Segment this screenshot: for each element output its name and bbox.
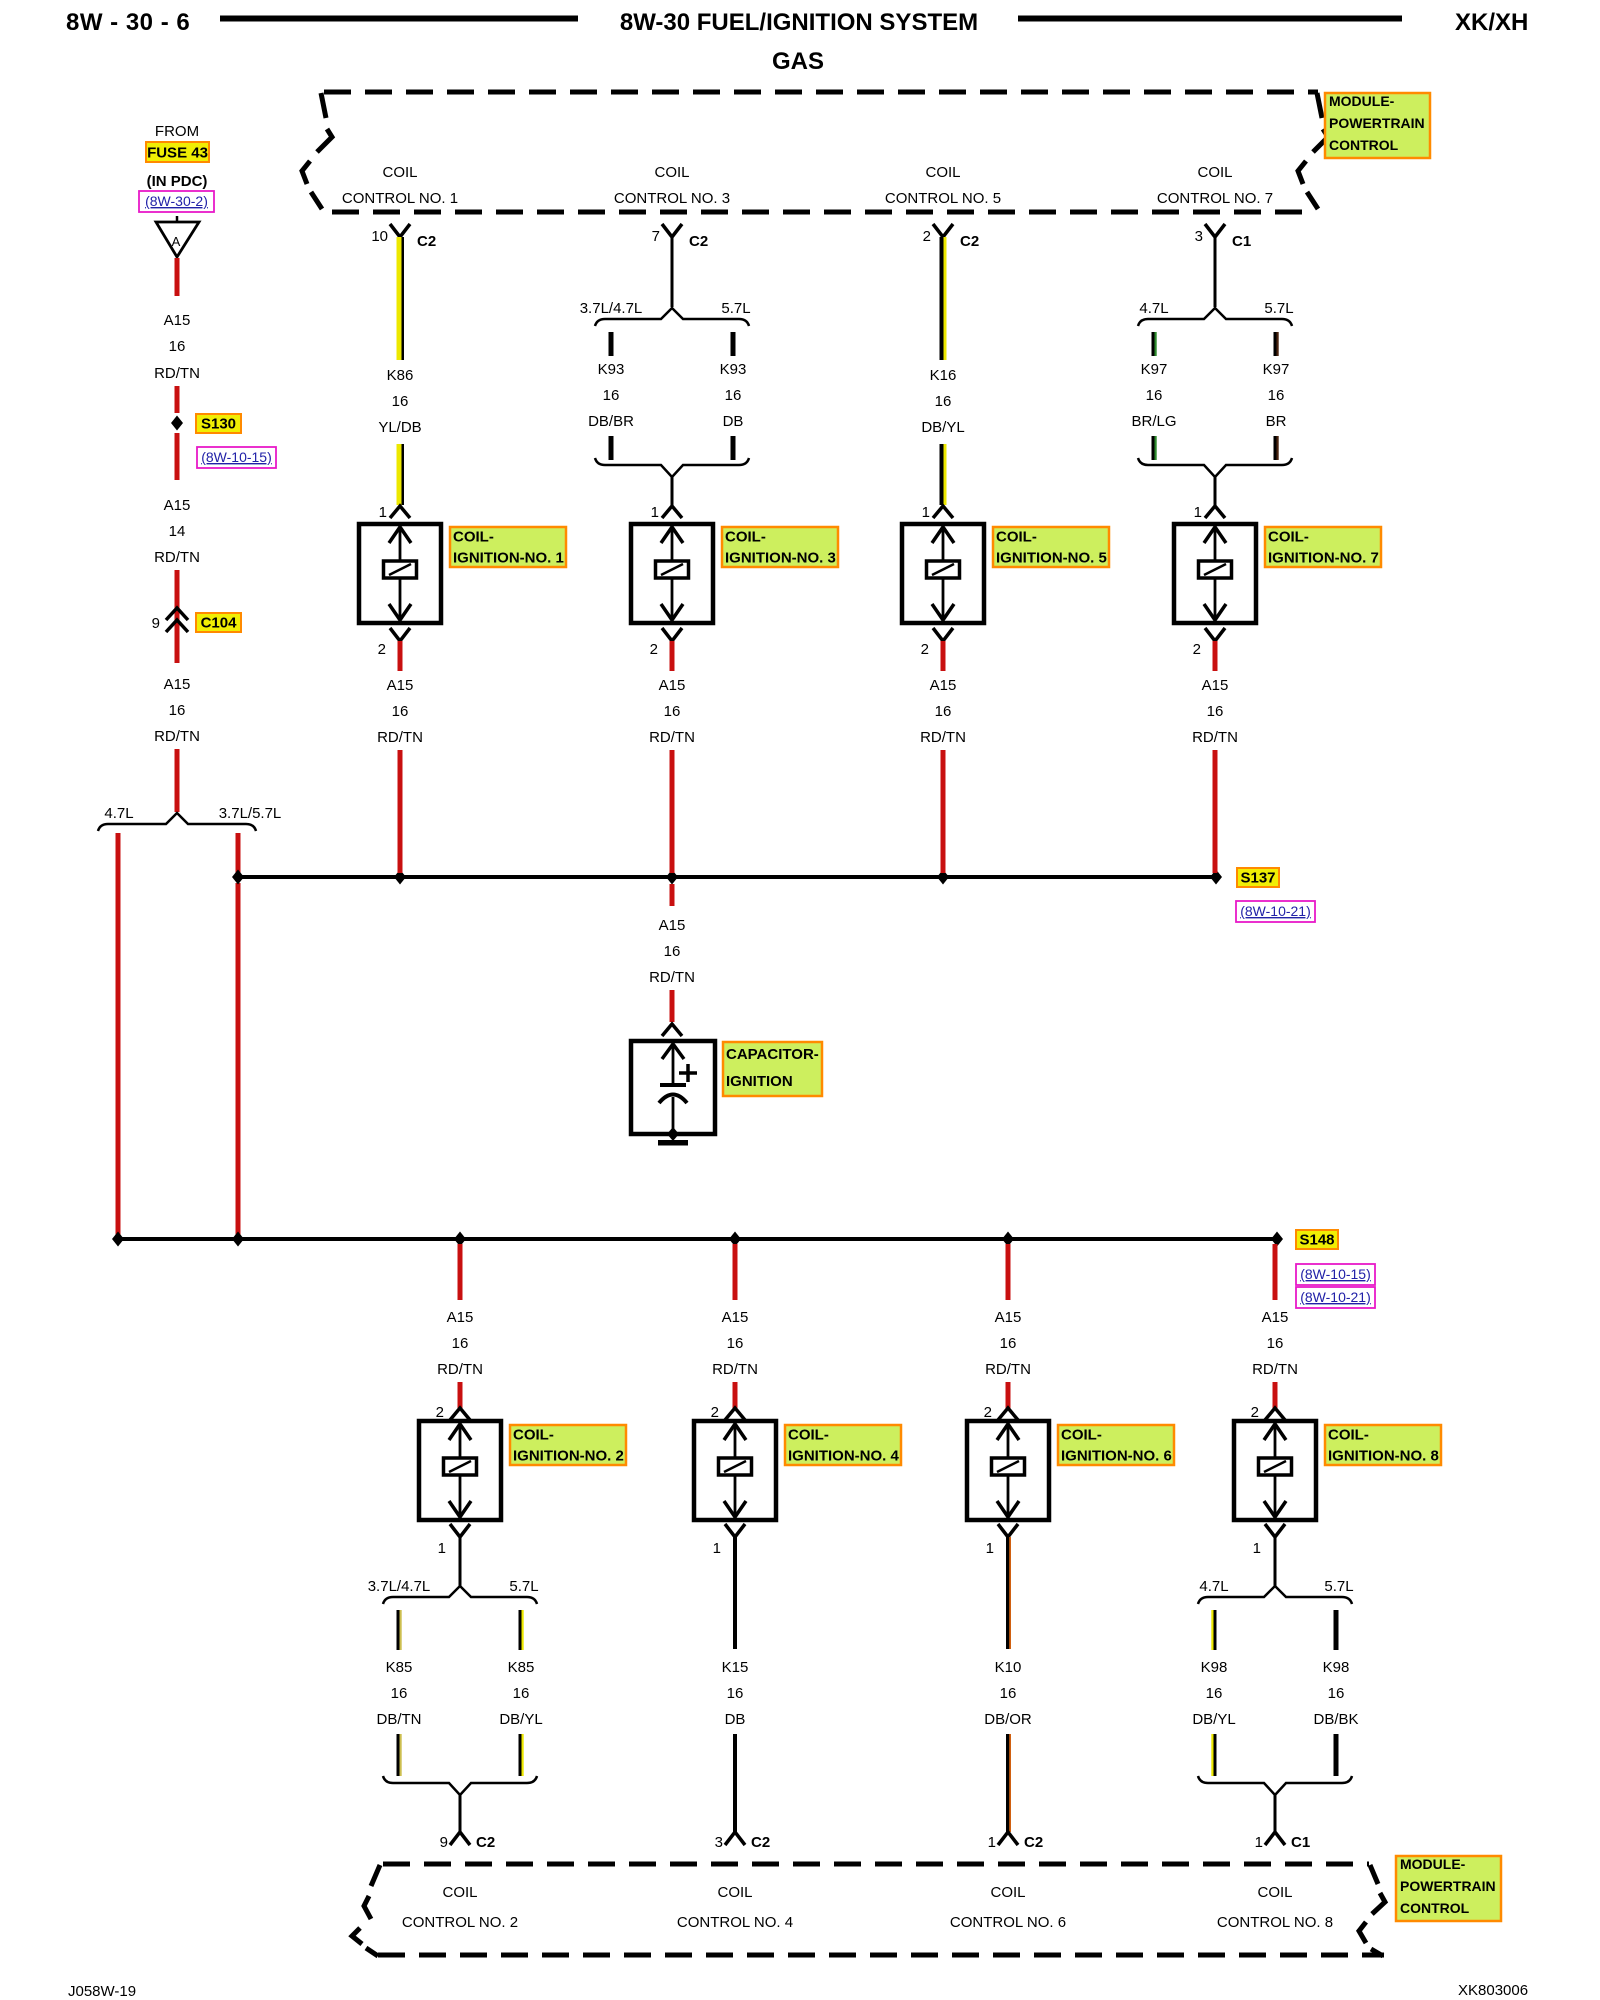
svg-text:1: 1	[713, 1540, 721, 1557]
coil-ignition-no 1 label	[450, 527, 566, 567]
coil-ignition-no 7 box	[1174, 524, 1256, 623]
svg-text:(8W-30-2): (8W-30-2)	[145, 193, 208, 209]
svg-text:COIL-: COIL-	[996, 529, 1037, 546]
svg-text:16: 16	[1328, 1685, 1345, 1702]
svg-text:16: 16	[1207, 703, 1224, 720]
wire stub below S137 to capacitor branch	[670, 884, 675, 906]
wire label K97 16 BR/LG	[1131, 361, 1176, 430]
wire K93 DB upper dash	[731, 332, 736, 356]
coil 1 pin 2 fork	[378, 628, 410, 658]
svg-text:COIL: COIL	[990, 1884, 1025, 1901]
svg-text:16: 16	[664, 703, 681, 720]
svg-text:C1: C1	[1291, 1834, 1310, 1851]
svg-text:COIL: COIL	[654, 164, 689, 181]
hyperlink (8W-10-21) under S137	[1236, 901, 1315, 922]
svg-text:16: 16	[664, 943, 681, 960]
footer left J058W-19	[68, 1983, 136, 2000]
svg-text:4.7L: 4.7L	[1139, 300, 1168, 317]
wire K97 BR upper dash	[1274, 332, 1279, 356]
svg-text:RD/TN: RD/TN	[1252, 1361, 1298, 1378]
header subtitle "GAS"	[772, 48, 824, 75]
engine label 3.7L/4.7L coil 2	[368, 1578, 431, 1595]
wire merge stem coil 3	[671, 477, 674, 505]
wire A15 RD/TN upper segment coil 1	[398, 641, 403, 671]
svg-text:DB/BK: DB/BK	[1313, 1711, 1358, 1728]
svg-text:16: 16	[391, 1685, 408, 1702]
page header left "8W - 30 - 6"	[66, 9, 190, 36]
wire K98 DB/BK upper dash	[1334, 1610, 1339, 1650]
svg-text:IGNITION-NO. 7: IGNITION-NO. 7	[1268, 550, 1379, 567]
svg-text:IGNITION-NO. 8: IGNITION-NO. 8	[1328, 1448, 1439, 1465]
svg-text:J058W-19: J058W-19	[68, 1983, 136, 2000]
svg-text:3.7L/5.7L: 3.7L/5.7L	[219, 805, 282, 822]
svg-text:1: 1	[651, 504, 659, 521]
engine label 5.7L coil 2	[509, 1578, 538, 1595]
coil 2 pin 1 fork	[438, 1524, 470, 1557]
hyperlink (8W-10-21) under S148	[1296, 1287, 1375, 1308]
coil-ignition-no 5 label	[993, 527, 1109, 567]
svg-text:A15: A15	[995, 1309, 1022, 1326]
svg-text:1: 1	[922, 504, 930, 521]
wire K86 YL/DB lower segment coil 1	[397, 444, 405, 505]
svg-text:K85: K85	[386, 1659, 413, 1676]
svg-text:9: 9	[440, 1834, 448, 1851]
svg-text:RD/TN: RD/TN	[920, 729, 966, 746]
page header center "8W-30 FUEL/IGNITION SYSTEM"	[620, 9, 978, 36]
wire A15 RD/TN upper segment coil 7	[1213, 641, 1218, 671]
svg-text:MODULE-: MODULE-	[1329, 93, 1395, 109]
wire K97 BR lower dash	[1274, 436, 1279, 460]
engine split brace 4.7L / 3.7L-5.7L	[98, 813, 256, 831]
svg-text:14: 14	[169, 523, 186, 540]
svg-text:IGNITION-NO. 5: IGNITION-NO. 5	[996, 550, 1107, 567]
module pin label COIL CONTROL NO. 4	[677, 1884, 793, 1931]
footer right XK803006	[1458, 1982, 1528, 1999]
wire from pin to engine split coil 3	[671, 237, 674, 307]
svg-text:CONTROL NO. 6: CONTROL NO. 6	[950, 1914, 1066, 1931]
svg-text:A15: A15	[1262, 1309, 1289, 1326]
svg-text:K15: K15	[722, 1659, 749, 1676]
svg-text:10: 10	[371, 228, 388, 245]
svg-text:16: 16	[1146, 387, 1163, 404]
coil 6 pin 2 fork	[984, 1404, 1018, 1421]
svg-text:8W - 30 - 6: 8W - 30 - 6	[66, 9, 190, 36]
wire A15 RD/TN segment to coil 2	[458, 1382, 463, 1408]
svg-text:1: 1	[1253, 1540, 1261, 1557]
wire K10 DB/OR upper segment	[1006, 1537, 1011, 1649]
svg-text:POWERTRAIN: POWERTRAIN	[1400, 1878, 1496, 1894]
wire A15 RD/TN stub below S148 coil 8	[1273, 1244, 1278, 1300]
svg-text:GAS: GAS	[772, 48, 824, 75]
feed source text (IN PDC)	[147, 173, 208, 190]
svg-text:3.7L/4.7L: 3.7L/4.7L	[580, 300, 643, 317]
svg-text:IGNITION-NO. 1: IGNITION-NO. 1	[453, 550, 564, 567]
wire label A15 16 RD/TN	[154, 312, 200, 382]
capacitor label CAPACITOR-IGNITION	[723, 1042, 822, 1096]
svg-text:1: 1	[438, 1540, 446, 1557]
wire K85 DB/TN upper dash	[397, 1610, 402, 1650]
svg-text:1: 1	[379, 504, 387, 521]
svg-text:5.7L: 5.7L	[509, 1578, 538, 1595]
svg-text:A15: A15	[164, 312, 191, 329]
coil-ignition-no 6 label	[1058, 1425, 1174, 1465]
svg-text:DB/YL: DB/YL	[921, 419, 964, 436]
svg-text:S130: S130	[201, 416, 236, 433]
coil 7 pin 2 fork	[1193, 628, 1225, 658]
svg-text:RD/TN: RD/TN	[649, 729, 695, 746]
svg-text:16: 16	[452, 1335, 469, 1352]
engine label 5.7L coil 8	[1324, 1578, 1353, 1595]
connector C104 label chip	[196, 613, 241, 632]
module PCM top - bottom dashed line	[332, 210, 1312, 215]
svg-text:2: 2	[984, 1404, 992, 1421]
wire label A15 16 RD/TN below C104	[154, 676, 200, 745]
coil 5 connector pin 2 C2 fork	[923, 224, 980, 250]
module pin label COIL CONTROL NO. 1	[342, 164, 458, 207]
engine merge brace coil 3	[595, 458, 749, 477]
svg-text:C2: C2	[689, 233, 708, 250]
module pin label COIL CONTROL NO. 5	[885, 164, 1001, 207]
wire A15 RD/TN stub below S148 coil 4	[733, 1244, 738, 1300]
wire label K93 16 DB	[720, 361, 747, 430]
engine label 4.7L coil 8	[1199, 1578, 1228, 1595]
engine split brace coil 7	[1138, 308, 1292, 326]
svg-text:MODULE-: MODULE-	[1400, 1856, 1466, 1872]
coil-ignition-no 6 box	[967, 1421, 1049, 1520]
svg-text:K86: K86	[387, 367, 414, 384]
svg-text:A15: A15	[164, 676, 191, 693]
module PCM top - top dashed line	[324, 90, 1318, 95]
wire A15 RD/TN upper segment coil 3	[670, 641, 675, 671]
feed source text FROM	[155, 123, 199, 140]
wire A15 16 RD/TN segment 1	[175, 258, 180, 296]
svg-text:CONTROL NO. 4: CONTROL NO. 4	[677, 1914, 793, 1931]
svg-text:1: 1	[1255, 1834, 1263, 1851]
svg-text:C2: C2	[960, 233, 979, 250]
svg-text:COIL-: COIL-	[1268, 529, 1309, 546]
coil-ignition-no 8 box	[1234, 1421, 1316, 1520]
engine split brace coil 3	[595, 308, 749, 326]
svg-text:CONTROL NO. 7: CONTROL NO. 7	[1157, 190, 1273, 207]
module pin 1 C1 fork coil 8	[1255, 1832, 1311, 1851]
wire K93 DB/BR lower dash	[609, 436, 614, 460]
svg-text:C104: C104	[201, 615, 238, 632]
page header right "XK/XH"	[1455, 9, 1528, 36]
svg-text:16: 16	[603, 387, 620, 404]
svg-text:16: 16	[727, 1685, 744, 1702]
svg-text:1: 1	[988, 1834, 996, 1851]
svg-text:IGNITION: IGNITION	[726, 1073, 793, 1090]
svg-text:K93: K93	[598, 361, 625, 378]
engine merge brace coil 2	[383, 1776, 537, 1795]
wire K15 DB lower segment	[733, 1734, 737, 1832]
module PCM bottom - left torn edge	[352, 1865, 380, 1956]
junction diamond on S148 bus at coil 4	[729, 1232, 741, 1247]
svg-text:16: 16	[169, 702, 186, 719]
splice S130 junction diamond	[171, 416, 183, 431]
svg-text:C1: C1	[1232, 233, 1251, 250]
svg-text:RD/TN: RD/TN	[377, 729, 423, 746]
svg-text:DB/OR: DB/OR	[984, 1711, 1032, 1728]
svg-text:(8W-10-21): (8W-10-21)	[1240, 903, 1311, 919]
wire label K85 16 DB/YL	[499, 1659, 542, 1728]
header rule right	[1018, 16, 1402, 22]
svg-text:C2: C2	[476, 1834, 495, 1851]
coil-ignition-no 2 label	[510, 1425, 626, 1465]
junction diamond on S137 bus at coil 1	[394, 870, 406, 885]
svg-text:1: 1	[1194, 504, 1202, 521]
coil-ignition-no 8 label	[1325, 1425, 1441, 1465]
wire label K93 16 DB/BR	[588, 361, 634, 430]
svg-text:CONTROL NO. 1: CONTROL NO. 1	[342, 190, 458, 207]
module PCM bottom - bottom dashed line	[378, 1953, 1384, 1958]
wire label A15 16 RD/TN coil 8	[1252, 1309, 1298, 1378]
wire K97 BR/LG lower dash	[1152, 436, 1157, 460]
svg-text:2: 2	[923, 228, 931, 245]
svg-text:DB/TN: DB/TN	[377, 1711, 422, 1728]
engine label 3.7L/5.7L (right feed)	[219, 805, 282, 822]
svg-text:RD/TN: RD/TN	[154, 549, 200, 566]
coil 1 connector pin 10 C2 fork	[371, 224, 436, 250]
coil 3 pin 1 fork	[651, 504, 682, 521]
svg-text:K10: K10	[995, 1659, 1022, 1676]
wire A15 RD/TN stub below S148 coil 6	[1006, 1244, 1011, 1300]
svg-text:POWERTRAIN: POWERTRAIN	[1329, 115, 1425, 131]
svg-text:7: 7	[652, 228, 660, 245]
wire stem to engine split coil 8	[1274, 1537, 1277, 1586]
module PCM top - right torn edge	[1298, 93, 1328, 209]
coil-ignition-no 4 box	[694, 1421, 776, 1520]
module pin label COIL CONTROL NO. 2	[402, 1884, 518, 1931]
svg-text:RD/TN: RD/TN	[154, 365, 200, 382]
svg-text:2: 2	[436, 1404, 444, 1421]
wire segment to capacitor	[670, 990, 675, 1022]
junction diamond on S148 bus at 3.7L/5.7L feed	[232, 1232, 244, 1247]
wire K16 DB/YL lower segment coil 5	[940, 444, 947, 505]
svg-text:5.7L: 5.7L	[721, 300, 750, 317]
svg-text:K97: K97	[1141, 361, 1168, 378]
coil-ignition-no 3 box	[631, 524, 713, 623]
svg-text:FROM: FROM	[155, 123, 199, 140]
svg-text:K16: K16	[930, 367, 957, 384]
fuse F43 label chip FUSE 43	[146, 142, 209, 162]
svg-text:16: 16	[725, 387, 742, 404]
wire label A15 16 RD/TN coil 5	[920, 677, 966, 746]
svg-text:A15: A15	[447, 1309, 474, 1326]
svg-text:CONTROL NO. 2: CONTROL NO. 2	[402, 1914, 518, 1931]
svg-text:16: 16	[1267, 1335, 1284, 1352]
wire K86 YL/DB upper segment coil 1	[397, 237, 405, 360]
coil 5 pin 1 fork	[922, 504, 953, 521]
svg-text:RD/TN: RD/TN	[1192, 729, 1238, 746]
svg-text:IGNITION-NO. 6: IGNITION-NO. 6	[1061, 1448, 1172, 1465]
wire A15 RD/TN segment to coil 4	[733, 1382, 738, 1408]
wire K85 DB/YL lower dash	[519, 1734, 524, 1776]
splice S148 label chip	[1296, 1230, 1338, 1249]
svg-text:3: 3	[715, 1834, 723, 1851]
coil-ignition-no 3 label	[722, 527, 838, 567]
wire label K98 16 DB/BK	[1313, 1659, 1358, 1728]
wire label A15 16 RD/TN coil 2	[437, 1309, 483, 1378]
svg-text:C2: C2	[751, 1834, 770, 1851]
svg-text:A15: A15	[659, 917, 686, 934]
splice S148 bus wire	[118, 1237, 1277, 1241]
svg-text:K85: K85	[508, 1659, 535, 1676]
module pin label COIL CONTROL NO. 6	[950, 1884, 1066, 1931]
junction diamond on S148 bus at coil 8	[1271, 1232, 1283, 1247]
svg-text:RD/TN: RD/TN	[649, 969, 695, 986]
svg-text:BR: BR	[1266, 413, 1287, 430]
engine label 3.7L/4.7L coil 3	[580, 300, 643, 317]
svg-text:COIL-: COIL-	[1328, 1427, 1369, 1444]
module PCM bottom - label MODULE-POWERTRAIN CONTROL	[1396, 1856, 1501, 1921]
hyperlink (8W-10-15) under S148	[1296, 1264, 1375, 1285]
junction diamond on S137 bus at coil 7	[1210, 870, 1222, 885]
svg-text:RD/TN: RD/TN	[985, 1361, 1031, 1378]
svg-text:RD/TN: RD/TN	[712, 1361, 758, 1378]
wire A15 RD/TN segment to coil 6	[1006, 1382, 1011, 1408]
svg-text:2: 2	[650, 641, 658, 658]
wire A15 RD/TN down to S137 bus coil 5	[941, 750, 946, 873]
wire segment to S130	[175, 386, 180, 413]
wire K98 DB/YL lower dash	[1211, 1734, 1216, 1776]
coil-ignition-no 4 label	[785, 1425, 901, 1465]
coil 8 pin 1 fork	[1253, 1524, 1285, 1557]
header rule left	[220, 16, 578, 22]
svg-text:RD/TN: RD/TN	[154, 728, 200, 745]
capacitor pin fork	[662, 1024, 682, 1036]
svg-text:1: 1	[986, 1540, 994, 1557]
module PCM top - left torn edge	[302, 93, 332, 209]
svg-text:CONTROL: CONTROL	[1400, 1900, 1470, 1916]
svg-text:COIL-: COIL-	[513, 1427, 554, 1444]
wire label A15 14 RD/TN	[154, 497, 200, 566]
svg-text:S148: S148	[1299, 1232, 1334, 1249]
engine merge brace coil 7	[1138, 458, 1292, 477]
module pin label COIL CONTROL NO. 8	[1217, 1884, 1333, 1931]
module pin 9 C2 fork coil 2	[440, 1832, 496, 1851]
coil 4 pin 1 fork	[713, 1524, 745, 1557]
svg-text:16: 16	[1268, 387, 1285, 404]
svg-text:A15: A15	[1202, 677, 1229, 694]
svg-text:8W-30 FUEL/IGNITION SYSTEM: 8W-30 FUEL/IGNITION SYSTEM	[620, 9, 978, 36]
wire K98 DB/BK lower dash	[1334, 1734, 1339, 1776]
coil-ignition-no 5 box	[902, 524, 984, 623]
svg-text:(8W-10-15): (8W-10-15)	[201, 449, 272, 465]
junction diamond on S137 bus at coil 5	[937, 870, 949, 885]
splice S130 label chip	[196, 414, 241, 433]
wire 3.7L/5.7L feed continues to S148 bus	[236, 883, 241, 1235]
wire A15 RD/TN upper segment coil 5	[941, 641, 946, 671]
svg-text:A15: A15	[164, 497, 191, 514]
wire A15 RD/TN down to S137 bus coil 7	[1213, 750, 1218, 873]
ground bar below capacitor	[658, 1140, 688, 1146]
coil 3 pin 2 fork	[650, 628, 682, 658]
wire K85 DB/YL upper dash	[519, 1610, 524, 1650]
coil 1 pin 1 fork	[379, 504, 410, 521]
junction diamond on S148 bus at 4.7L feed	[112, 1232, 124, 1247]
wire K98 DB/YL upper dash	[1211, 1610, 1216, 1650]
wire segment to engine split brace	[175, 749, 180, 812]
wire K93 DB lower dash	[731, 436, 736, 460]
wire K15 DB upper segment	[733, 1537, 737, 1649]
svg-text:COIL-: COIL-	[725, 529, 766, 546]
engine merge brace coil 8	[1198, 1776, 1352, 1795]
wire A15 16 RD/TN segment below C104	[175, 633, 180, 663]
wire K85 DB/TN lower dash	[397, 1734, 402, 1776]
svg-text:A: A	[172, 234, 181, 249]
svg-text:(8W-10-21): (8W-10-21)	[1300, 1289, 1371, 1305]
wire segment below S130	[175, 433, 180, 480]
wire label K85 16 DB/TN	[377, 1659, 422, 1728]
svg-text:16: 16	[513, 1685, 530, 1702]
junction diamond on S148 bus at coil 2	[454, 1232, 466, 1247]
svg-text:A15: A15	[722, 1309, 749, 1326]
wire label A15 16 RD/TN coil 7	[1192, 677, 1238, 746]
off-page connector A (triangle)	[156, 216, 199, 257]
svg-text:C2: C2	[417, 233, 436, 250]
svg-text:COIL: COIL	[717, 1884, 752, 1901]
svg-text:COIL: COIL	[925, 164, 960, 181]
svg-text:2: 2	[1251, 1404, 1259, 1421]
wire K97 BR/LG upper dash	[1152, 332, 1157, 356]
wire merge stem coil 8	[1274, 1795, 1277, 1832]
svg-text:16: 16	[935, 393, 952, 410]
wire label A15 16 RD/TN coil 4	[712, 1309, 758, 1378]
coil 8 pin 2 fork	[1251, 1404, 1285, 1421]
engine label 5.7L coil 7	[1264, 300, 1293, 317]
svg-text:COIL-: COIL-	[1061, 1427, 1102, 1444]
svg-text:3: 3	[1195, 228, 1203, 245]
svg-text:BR/LG: BR/LG	[1131, 413, 1176, 430]
svg-text:4.7L: 4.7L	[104, 805, 133, 822]
svg-text:(IN PDC): (IN PDC)	[147, 173, 208, 190]
svg-text:16: 16	[392, 393, 409, 410]
wire label A15 16 RD/TN coil 3	[649, 677, 695, 746]
svg-text:COIL: COIL	[442, 1884, 477, 1901]
wire label A15 16 RD/TN coil 6	[985, 1309, 1031, 1378]
wire merge stem coil 2	[459, 1795, 462, 1832]
wire K10 DB/OR lower segment	[1006, 1734, 1011, 1832]
svg-text:S137: S137	[1240, 870, 1275, 887]
coil 4 pin 2 fork	[711, 1404, 745, 1421]
svg-text:CONTROL: CONTROL	[1329, 137, 1399, 153]
coil-ignition-no 1 box	[359, 524, 441, 623]
svg-text:2: 2	[378, 641, 386, 658]
capacitor C1 ignition box	[631, 1041, 715, 1134]
svg-text:YL/DB: YL/DB	[378, 419, 421, 436]
svg-text:COIL-: COIL-	[788, 1427, 829, 1444]
coil 2 pin 2 fork	[436, 1404, 470, 1421]
wire from pin to engine split coil 7	[1214, 237, 1217, 307]
wire segment to C104	[175, 570, 180, 633]
junction diamond on S137 bus at 3.7L/5.7L feed	[232, 870, 244, 885]
wire label K86 16 YL/DB	[378, 367, 421, 436]
svg-text:CONTROL NO. 3: CONTROL NO. 3	[614, 190, 730, 207]
svg-text:COIL: COIL	[1257, 1884, 1292, 1901]
wire label K98 16 DB/YL	[1192, 1659, 1235, 1728]
svg-text:RD/TN: RD/TN	[437, 1361, 483, 1378]
coil 5 pin 2 fork	[921, 628, 953, 658]
wire label K16 16 DB/YL	[921, 367, 964, 436]
module pin label COIL CONTROL NO. 7	[1157, 164, 1273, 207]
svg-text:DB: DB	[723, 413, 744, 430]
splice S137 label chip	[1237, 868, 1279, 887]
module PCM top - label MODULE-POWERTRAIN CONTROL	[1325, 93, 1430, 158]
engine label 4.7L (left feed)	[104, 805, 133, 822]
svg-text:2: 2	[711, 1404, 719, 1421]
svg-text:(8W-10-15): (8W-10-15)	[1300, 1266, 1371, 1282]
